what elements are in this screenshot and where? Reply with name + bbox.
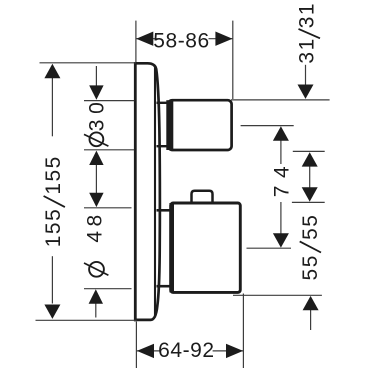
svg-text:4: 4 xyxy=(270,165,293,178)
svg-text:31: 31 xyxy=(295,2,318,28)
svg-text:64-92: 64-92 xyxy=(158,339,214,362)
svg-text:31: 31 xyxy=(295,37,318,63)
svg-text:8: 8 xyxy=(83,213,106,226)
svg-text:58-86: 58-86 xyxy=(153,29,209,52)
svg-text:155: 155 xyxy=(42,155,65,195)
svg-text:3: 3 xyxy=(86,118,109,131)
svg-text:7: 7 xyxy=(270,184,293,197)
svg-text:155: 155 xyxy=(42,208,65,248)
svg-text:4: 4 xyxy=(83,229,106,242)
svg-text:0: 0 xyxy=(86,101,109,114)
svg-text:55: 55 xyxy=(299,254,322,280)
svg-text:55: 55 xyxy=(299,214,322,240)
